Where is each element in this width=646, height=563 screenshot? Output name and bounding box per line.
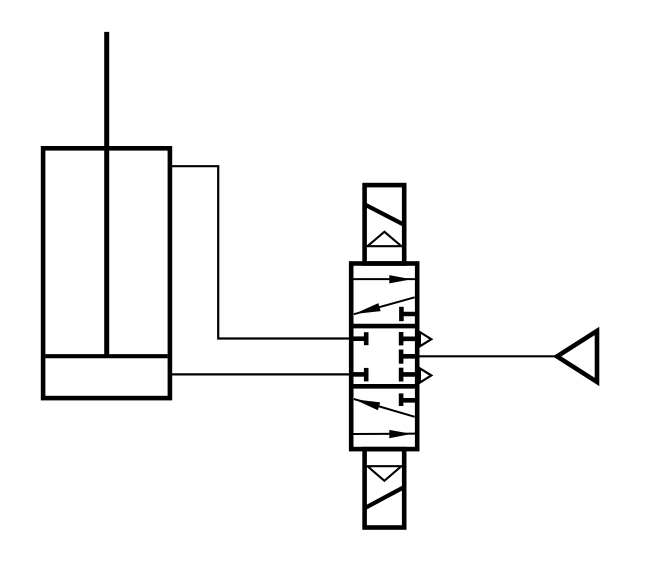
bottom square blocked port R-level xyxy=(401,393,417,406)
piston xyxy=(45,354,167,358)
top solenoid diagonal xyxy=(365,204,405,225)
piston rod xyxy=(104,32,109,356)
bottom actuator box xyxy=(365,449,405,527)
bottom solenoid diagonal xyxy=(365,487,405,508)
top pilot triangle xyxy=(367,232,401,246)
valve position divider upper xyxy=(351,324,417,329)
port S blocked mark (middle, right bottom) xyxy=(401,368,417,382)
top square flow arrow P to B xyxy=(354,297,415,314)
port B blocked mark (middle, left bottom) xyxy=(351,368,366,382)
bottom square flow arrow P to A xyxy=(354,399,415,417)
valve position divider lower xyxy=(351,384,417,389)
wire cylinder top port to valve port A xyxy=(170,166,351,338)
bottom square flow arrow B to S xyxy=(354,430,416,438)
port P blocked mark (middle, right center) xyxy=(401,350,417,364)
top square flow arrow A to R xyxy=(354,275,416,283)
top actuator box xyxy=(365,185,405,263)
wire cylinder bottom port to valve port B xyxy=(170,373,351,375)
valve body outline xyxy=(351,264,417,450)
cylinder body xyxy=(43,148,170,398)
top square blocked port S-level xyxy=(401,307,417,321)
port R blocked mark (middle, right top) xyxy=(401,332,417,345)
exhaust triangle S xyxy=(420,368,431,382)
exhaust triangle R xyxy=(420,332,431,346)
bottom pilot triangle xyxy=(367,466,401,481)
supply triangle xyxy=(557,331,597,382)
port A blocked mark (middle, left top) xyxy=(351,332,366,345)
wire valve port P to supply xyxy=(417,355,556,357)
